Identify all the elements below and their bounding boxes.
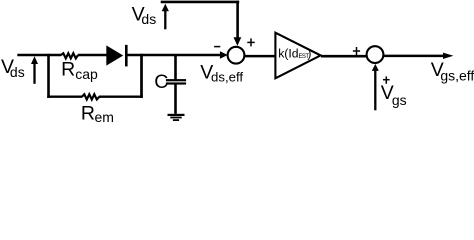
svg-text:k(IdEST): k(IdEST) xyxy=(278,46,311,60)
plus sign at U2 left input xyxy=(353,47,360,55)
arrowhead into summing junction from top xyxy=(234,37,242,46)
bottom branch wire left xyxy=(47,95,82,97)
top feed wire vertical xyxy=(236,1,239,39)
minus sign at U1 xyxy=(214,46,220,48)
label R_cap xyxy=(61,58,98,82)
svg-text:Rcap: Rcap xyxy=(61,58,98,82)
vertical wire left of Rem branch xyxy=(47,54,50,98)
capacitor C top lead xyxy=(174,54,177,79)
ground bar 2 xyxy=(170,117,181,119)
svg-text:Vds,eff: Vds,eff xyxy=(200,62,243,85)
svg-text:C: C xyxy=(154,71,168,93)
top feed wire horizontal xyxy=(161,1,240,4)
label C xyxy=(154,71,168,93)
node Vds feedforward label xyxy=(132,4,157,27)
capacitor C bottom lead xyxy=(174,84,177,113)
ground bar 3 xyxy=(173,119,179,121)
node Vds input label xyxy=(1,56,25,80)
summing junction U2 circle xyxy=(367,46,384,63)
label R_em xyxy=(81,102,114,125)
Vds feedforward polarity arrow xyxy=(162,4,169,30)
resistor R_cap xyxy=(61,53,78,58)
output wire V_gs,eff xyxy=(384,55,444,58)
diode D1 cathode bar xyxy=(125,45,128,67)
Vds input polarity arrow xyxy=(31,56,38,84)
svg-text:Vds: Vds xyxy=(1,56,25,80)
label V_ds,eff xyxy=(200,62,243,85)
bottom branch wire right xyxy=(99,95,143,97)
output arrowhead xyxy=(443,53,453,59)
resistor R_em xyxy=(82,94,100,99)
vertical wire right of Rem branch xyxy=(140,54,143,98)
ground bar 1 xyxy=(168,114,185,116)
wire from Vds input to resistor Rcap xyxy=(17,54,61,57)
capacitor C bottom plate xyxy=(166,82,186,84)
plus sign at U1 xyxy=(247,38,254,46)
label V_gs,eff xyxy=(431,59,474,84)
svg-text:Vgs: Vgs xyxy=(381,82,407,108)
summing junction U1 circle xyxy=(228,47,245,64)
diode D1 triangle xyxy=(106,45,123,65)
label V_gs xyxy=(381,82,407,108)
wire from diode to summing junction xyxy=(126,54,221,57)
gain block k(Id_EST) triangle xyxy=(275,33,320,79)
svg-text:Vgs,eff: Vgs,eff xyxy=(431,59,474,84)
arrowhead into summing junction U1 xyxy=(220,51,228,59)
capacitor C top plate xyxy=(166,79,186,81)
plus sign at U2 bottom input xyxy=(383,76,390,83)
wire gain block to summing junction U2 xyxy=(321,55,367,58)
wire from Rcap to diode xyxy=(78,54,107,57)
V_gs polarity arrow into U2 xyxy=(372,64,379,110)
svg-text:Vds: Vds xyxy=(132,4,157,27)
wire U1 to gain block xyxy=(244,55,276,58)
label k(Id_EST) xyxy=(278,46,311,60)
svg-text:Rem: Rem xyxy=(81,102,114,125)
